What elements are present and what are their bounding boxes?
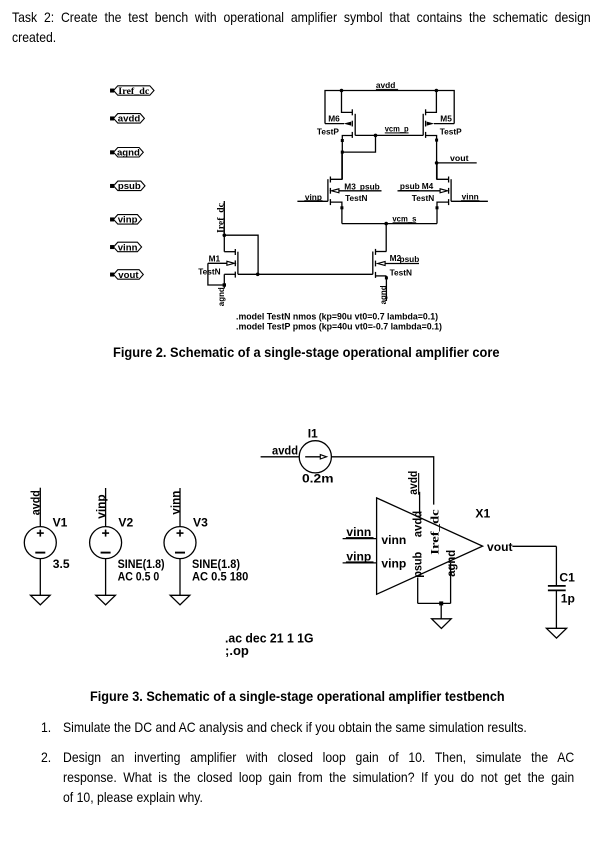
svg-text:vcm_s: vcm_s — [392, 213, 416, 223]
port agnd — [111, 148, 144, 158]
svg-text:M3: M3 — [344, 181, 356, 191]
node wire corner square — [341, 151, 344, 154]
svg-text:Iref_dc: Iref_dc — [216, 203, 226, 233]
svg-text:;.op: ;.op — [225, 643, 249, 658]
wire vcm_s to M2 drain — [385, 224, 387, 252]
wire vinp stub — [343, 562, 377, 564]
svg-text:C1: C1 — [559, 570, 575, 584]
wire Iref_dc — [223, 201, 225, 252]
svg-text:vcm_p: vcm_p — [385, 123, 409, 133]
list item 1 — [41, 718, 51, 739]
wire M4 source to tail — [436, 208, 438, 224]
node vcm_p junction — [374, 134, 378, 138]
transistor M4 TestN — [398, 163, 452, 208]
port vinp — [111, 215, 142, 225]
svg-text:M4: M4 — [422, 181, 434, 191]
svg-text:psub: psub — [400, 254, 420, 264]
svg-text:psub: psub — [400, 181, 420, 191]
svg-text:agnd: agnd — [117, 148, 140, 159]
wire M1 source down — [223, 274, 225, 288]
pin square M4 source — [436, 206, 439, 209]
svg-text:M1: M1 — [209, 254, 221, 264]
svg-text:M5: M5 — [440, 114, 452, 124]
ground below V2 — [96, 595, 116, 605]
svg-text:AC 0.5 180: AC 0.5 180 — [192, 569, 249, 583]
wire vcm_p — [355, 134, 423, 136]
svg-text:.model TestP pmos (kp=40u vt0=: .model TestP pmos (kp=40u vt0=-0.7 lambd… — [236, 321, 442, 332]
svg-text:avdd: avdd — [29, 490, 43, 515]
svg-text:vinp: vinp — [118, 215, 138, 226]
voltage source V2 — [90, 488, 122, 595]
node Iref_dc junction — [223, 233, 227, 237]
wire vinp to M3 gate — [297, 200, 328, 202]
pin square M5 drain — [435, 139, 438, 142]
port vinn — [111, 242, 142, 252]
wire M6 diode loop — [342, 135, 375, 152]
svg-text:V2: V2 — [118, 516, 133, 530]
wire gate M1 to M2 — [238, 273, 373, 275]
wire avdd into I1 — [261, 456, 300, 458]
node M1 source square — [223, 283, 226, 286]
ground below V1 — [31, 595, 51, 605]
svg-text:avdd: avdd — [411, 511, 425, 538]
svg-text:TestN: TestN — [412, 193, 434, 203]
transistor M5 TestP — [423, 91, 454, 141]
svg-text:3.5: 3.5 — [53, 557, 70, 571]
svg-text:vinn: vinn — [462, 191, 479, 201]
wire vout from apex — [512, 545, 556, 547]
wire M1 diode loop — [224, 235, 258, 274]
svg-text:1p: 1p — [561, 592, 575, 606]
svg-text:avdd: avdd — [272, 444, 298, 458]
wire avdd rail — [325, 91, 454, 124]
svg-text:agnd: agnd — [378, 285, 388, 304]
wire M2 source down — [385, 276, 387, 301]
figure 3 caption — [90, 687, 505, 708]
node junction on rail right — [435, 89, 439, 93]
wire C1 to ground — [555, 591, 557, 628]
wire vinn from M4 gate — [451, 200, 488, 202]
svg-text:TestN: TestN — [198, 267, 220, 277]
ground below op-amp — [432, 619, 452, 629]
wire I1 to Iref_dc pin — [331, 457, 433, 505]
svg-text:vinn: vinn — [118, 242, 138, 253]
wire vcm_s — [342, 223, 437, 225]
svg-text:agnd: agnd — [216, 287, 226, 306]
svg-text:vinp: vinp — [94, 494, 108, 519]
wire vout down to C1 — [555, 546, 557, 585]
svg-text:AC 0.5 0: AC 0.5 0 — [118, 569, 160, 583]
svg-text:V3: V3 — [193, 516, 208, 530]
svg-text:vout: vout — [118, 270, 139, 281]
svg-text:avdd: avdd — [376, 80, 396, 90]
svg-text:M6: M6 — [328, 114, 340, 124]
svg-text:0.2m: 0.2m — [302, 471, 334, 485]
svg-text:vinn: vinn — [168, 491, 182, 515]
wire M1 bulk to source — [208, 263, 224, 285]
top paragraph — [12, 8, 591, 29]
port Iref_dc — [111, 86, 154, 95]
node M2 source square — [385, 276, 388, 279]
svg-text:TestN: TestN — [345, 193, 367, 203]
svg-text:Iref_dc: Iref_dc — [118, 86, 150, 97]
ground below C1 — [546, 628, 566, 638]
wire psub-agnd bottom — [418, 602, 451, 604]
svg-text:X1: X1 — [475, 507, 490, 521]
wire avdd pin stub — [419, 492, 421, 515]
svg-text:vout: vout — [450, 153, 469, 163]
svg-text:TestN: TestN — [390, 268, 412, 278]
svg-text:vinp: vinp — [381, 556, 406, 570]
port avdd — [111, 114, 145, 124]
node junction on rail left — [340, 89, 344, 93]
voltage source V3 — [164, 488, 196, 595]
pin square M3 source — [340, 206, 343, 209]
wire M6 drain down to M3 — [341, 141, 343, 180]
wire M3 source to tail — [341, 208, 343, 224]
svg-text:vout: vout — [487, 540, 513, 554]
svg-text:Iref_dc: Iref_dc — [427, 509, 441, 554]
wire vout — [437, 162, 477, 164]
wire M5 drain down to M4 — [436, 140, 438, 179]
wire agnd pin down — [450, 563, 452, 603]
voltage source V1 — [24, 488, 56, 596]
svg-text:psub: psub — [360, 181, 380, 191]
svg-text:TestP: TestP — [440, 126, 462, 136]
current source I1 — [299, 441, 331, 473]
transistor M3 TestN — [328, 152, 382, 208]
svg-text:I1: I1 — [308, 427, 318, 441]
transistor M1 TestN — [208, 249, 238, 278]
op-amp X1 triangle — [377, 498, 483, 594]
transistor M6 TestP — [325, 91, 355, 141]
figure 2 caption — [113, 343, 500, 364]
capacitor C1 — [548, 586, 566, 591]
wire psub pin down — [417, 578, 419, 604]
wire to opamp ground — [440, 603, 442, 618]
svg-text:V1: V1 — [53, 516, 68, 530]
svg-text:agnd: agnd — [444, 550, 458, 577]
svg-text:TestP: TestP — [317, 126, 339, 136]
wire vinn stub — [343, 538, 377, 540]
node M1 gate junction — [256, 273, 260, 277]
node agnd junction square — [439, 601, 443, 605]
pin square M6 drain — [341, 139, 344, 142]
svg-text:psub: psub — [118, 181, 141, 192]
node vout junction — [435, 161, 439, 165]
svg-text:avdd: avdd — [118, 114, 141, 125]
ground below V3 — [170, 595, 190, 605]
transistor M2 TestN — [373, 249, 419, 278]
node vcm_s junction — [384, 222, 388, 226]
svg-text:psub: psub — [411, 552, 425, 578]
port psub — [111, 181, 145, 191]
svg-text:vinn: vinn — [381, 533, 406, 547]
port vout — [111, 270, 144, 280]
list item 2 — [41, 748, 51, 769]
